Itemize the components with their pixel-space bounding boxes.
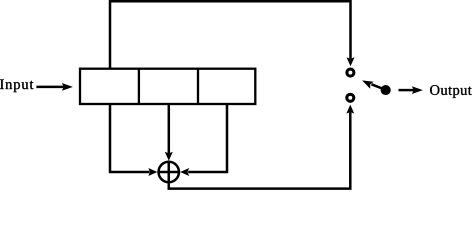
node: switch pole (filled circle) [381,85,391,95]
wire: right tap from stage 3 down to XOR right input [188,104,227,173]
arrowhead: input arrow into register [62,83,73,91]
node: switch bottom contact (open circle) [347,94,354,101]
wire: middle tap from stage 2 down to XOR top input [168,104,171,154]
wire: input arrow shaft [36,86,63,89]
wire: XOR output along bottom and up to switch bottom contact [169,112,351,189]
arrowhead: output arrow [412,86,423,94]
wire: feedforward tap from register stage 1 up, across top, down to switch top contact [110,1,351,69]
arrowhead: up into switch bottom contact [346,105,354,114]
arrowhead: down into switch top contact [347,57,355,66]
arrowhead: switch arm pointing at top contact [360,77,373,89]
register divider 1 [138,69,140,104]
wire: switch arm from pole toward top contact [372,84,384,89]
wire: left tap from stage 1 down to XOR left input [110,104,150,173]
register divider 2 [197,69,199,104]
wire: output arrow shaft [399,89,415,92]
XOR gate U1 (modulo-2 adder, circle with plus) [157,161,180,184]
node: switch top contact (open circle) [347,69,354,76]
register: 3-stage shift register box [80,69,255,104]
arrowhead: right tap into XOR right [180,168,189,176]
arrowhead: middle tap into XOR top [165,152,173,161]
label: Output [430,85,472,98]
label: Input [0,79,33,92]
arrowhead: left tap into XOR left [148,168,157,176]
